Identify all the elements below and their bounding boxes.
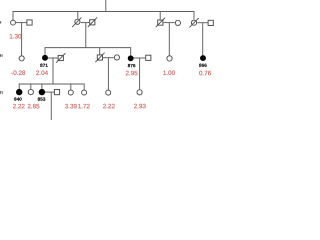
value 2.93 at x 139.8 xyxy=(134,104,146,109)
person III-6 circle female affected xyxy=(128,55,134,61)
value 2.04 at x 42.0 xyxy=(36,71,48,76)
wire couple II-3 II-4 xyxy=(81,22,90,24)
person II-0 cropped spouse square at left edge xyxy=(0,21,1,23)
wire drop II-3 couple to gen III sibship xyxy=(85,23,87,48)
wire hang IV-4 xyxy=(70,84,72,90)
person IV-3s square male spouse xyxy=(54,90,59,95)
id label 866 xyxy=(199,64,207,67)
wire couple III-6 III-7 xyxy=(134,57,146,59)
wire couple II-1 II-2 xyxy=(16,22,27,24)
value 2.22 at x 108.9 xyxy=(103,104,115,108)
value 3.39 at x 70.9 xyxy=(65,104,77,109)
wire drop II-1 couple to III-1 xyxy=(21,23,23,56)
value 1.30 at x 15.4 xyxy=(10,34,22,39)
value 1.72 at x 83.9 xyxy=(78,104,90,108)
person IV-7 circle female xyxy=(137,90,142,95)
person II-1 circle female xyxy=(11,20,16,25)
person II-4 square male deceased xyxy=(88,17,97,27)
id label 871 xyxy=(40,64,48,67)
value 2.85 at x 33.5 xyxy=(28,104,40,109)
wire couple II-5 II-6 xyxy=(163,22,174,24)
wire gen I parent drop xyxy=(105,0,107,12)
wire hang III-4 xyxy=(99,48,101,55)
person IV-5 circle female xyxy=(82,90,87,95)
person IV-3 circle female affected xyxy=(39,89,45,95)
person IV-4 circle female xyxy=(68,90,73,95)
person II-2 square male xyxy=(27,20,32,25)
wire drop II-7 couple to III-9 xyxy=(202,23,204,55)
person III-9 circle female affected xyxy=(200,55,206,61)
wire couple II-7 II-8 xyxy=(197,22,207,24)
generation label IV cropped at left margin xyxy=(0,91,3,94)
wire riser II-5 xyxy=(159,12,161,20)
person III-2 circle female affected xyxy=(42,55,48,61)
wire sibship line generation IV xyxy=(19,84,84,90)
generation label III cropped at left margin xyxy=(0,54,3,57)
wire couple III-2 III-3 xyxy=(48,57,58,59)
value 2.22 at x 18.8 xyxy=(13,104,25,108)
value 2.95 at x 131.6 xyxy=(126,71,138,76)
person III-4 square male deceased xyxy=(95,53,104,63)
value 0.76 at x 205.1 xyxy=(199,71,211,76)
person IV-6 circle female xyxy=(106,90,111,95)
wire hang IV-3 xyxy=(41,84,43,89)
wire sibship line generation III xyxy=(45,48,131,56)
person III-8 circle female xyxy=(167,56,172,61)
wire drop IV-3 couple to gen V cropped xyxy=(50,92,52,120)
id label 876 xyxy=(128,64,136,67)
person III-1 circle female xyxy=(19,56,24,61)
wire drop II-5 couple to III-8 xyxy=(168,23,170,56)
wire drop III-4 couple to IV-6 xyxy=(107,58,109,90)
wire couple III-4 III-5 xyxy=(103,57,114,59)
person II-6 circle female xyxy=(175,20,180,25)
person II-5 square male deceased xyxy=(156,18,165,28)
person II-3 circle female deceased xyxy=(72,18,81,28)
value -0.28 at x 18.3 xyxy=(11,71,25,76)
wire couple IV-3 spouse xyxy=(45,91,54,93)
wire riser II-3 xyxy=(77,12,79,19)
wire drop III-6 couple to IV-7 xyxy=(139,58,141,89)
person II-8 square male xyxy=(208,20,213,25)
person IV-1 circle female affected xyxy=(16,89,22,95)
person III-7 square male xyxy=(146,55,151,60)
wire sibship line generation II xyxy=(13,12,194,20)
person IV-2 circle female xyxy=(28,89,33,94)
value 1.00 at x 169.0 xyxy=(163,71,175,76)
person III-5 circle female xyxy=(114,55,119,60)
id label 853 xyxy=(38,97,46,100)
id label 840 xyxy=(14,97,22,100)
person III-3 square male deceased xyxy=(56,53,65,63)
wire drop III-2 couple to gen IV sibship xyxy=(52,58,54,84)
wire hang IV-2 xyxy=(30,84,32,89)
person II-7 circle female deceased xyxy=(189,18,198,28)
